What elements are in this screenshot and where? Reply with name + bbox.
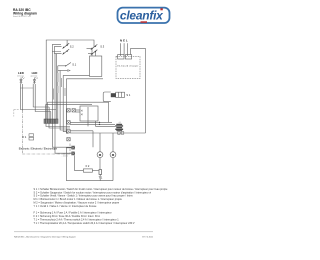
svg-text:grün/vert: grün/vert bbox=[31, 75, 38, 78]
svg-text:Y 1 = Ventil 1 / Valve 1 / V: Y 1 = Ventil 1 / Valve 1 / Vanne 1 / Int… bbox=[34, 205, 97, 208]
svg-text:NEL: NEL bbox=[120, 39, 129, 43]
svg-text:+ batterie: + batterie bbox=[62, 152, 69, 155]
svg-text:LED: LED bbox=[32, 71, 38, 75]
svg-text:S.1: S.1 bbox=[72, 62, 76, 66]
svg-text:rot/rouge: rot/rouge bbox=[17, 75, 24, 78]
svg-text:B 9 / 0.2011: B 9 / 0.2011 bbox=[142, 236, 154, 238]
svg-text:S.3: S.3 bbox=[100, 45, 104, 49]
svg-text:Wiring diagram: Wiring diagram bbox=[13, 11, 37, 15]
svg-text:(+): (+) bbox=[119, 122, 122, 124]
svg-text:Electronic / Electronic / Elec: Electronic / Electronic / Electronique bbox=[19, 148, 58, 151]
svg-text:T 1: T 1 bbox=[99, 176, 103, 180]
svg-text:F 1: F 1 bbox=[23, 135, 27, 139]
svg-text:M: M bbox=[112, 153, 115, 157]
svg-text:LED: LED bbox=[18, 71, 24, 75]
svg-text:F 2: F 2 bbox=[86, 164, 90, 168]
svg-text:cleanfix: cleanfix bbox=[120, 9, 164, 23]
svg-text:On-board charger: On-board charger bbox=[117, 65, 139, 68]
svg-text:RA 320 IBC - Bürstmaschine / D: RA 320 IBC - Bürstmaschine / Diagramme é… bbox=[14, 235, 76, 238]
svg-text:S.2: S.2 bbox=[70, 44, 74, 48]
svg-text:M: M bbox=[99, 153, 102, 157]
svg-text:T 1 = Thermoprotektor 20,4 A: T 1 = Thermoprotektor 20,4 A / Temperatu… bbox=[34, 222, 135, 225]
svg-text:Stand: 04.08.2011 / ers.: Stand: 04.08.2011 / ers. bbox=[13, 15, 31, 18]
svg-text:S 1: S 1 bbox=[126, 93, 130, 97]
